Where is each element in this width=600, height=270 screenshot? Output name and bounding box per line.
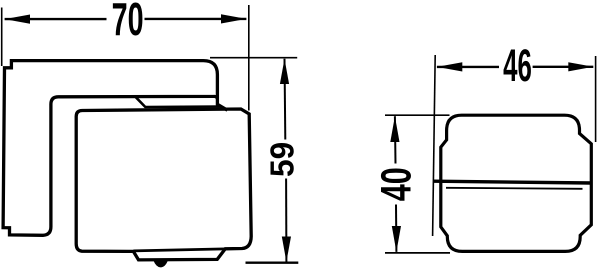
bracket step edge to relay body bbox=[136, 97, 220, 107]
mounting bracket outline bbox=[3, 61, 227, 236]
dimension line 46 bbox=[437, 62, 593, 71]
svg-text:46: 46 bbox=[503, 39, 532, 91]
dimension text 70 bbox=[112, 0, 144, 46]
svg-text:40: 40 bbox=[372, 167, 420, 201]
extension line left of dim 46 bbox=[433, 55, 436, 236]
extension line left of dim 70 bbox=[1, 8, 3, 67]
dimension line 40 bbox=[390, 116, 401, 252]
dimension text 40 bbox=[372, 167, 420, 201]
center flange line bbox=[434, 181, 592, 183]
extension line right of dim 70 bbox=[248, 5, 250, 111]
svg-text:70: 70 bbox=[112, 0, 144, 46]
connector nub bbox=[153, 260, 168, 267]
relay body outline (side view) bbox=[76, 109, 251, 260]
relay body outline (front view) with side tabs bbox=[441, 115, 592, 251]
relay body bottom face line bbox=[133, 249, 225, 251]
extension line top for dim 40 bbox=[385, 114, 450, 116]
dimension text 59 bbox=[264, 142, 301, 177]
dimension text 46 bbox=[503, 39, 532, 91]
cover parting line bbox=[446, 188, 583, 189]
svg-text:59: 59 bbox=[264, 142, 301, 177]
dimension line 70 bbox=[5, 14, 247, 23]
extension line right of dim 46 bbox=[595, 56, 597, 142]
dimension line 59 bbox=[280, 59, 291, 262]
extension line bottom for dim 59 bbox=[246, 262, 299, 264]
extension line bottom for dim 40 bbox=[385, 252, 450, 254]
extension line top for dim 59 bbox=[210, 57, 297, 59]
